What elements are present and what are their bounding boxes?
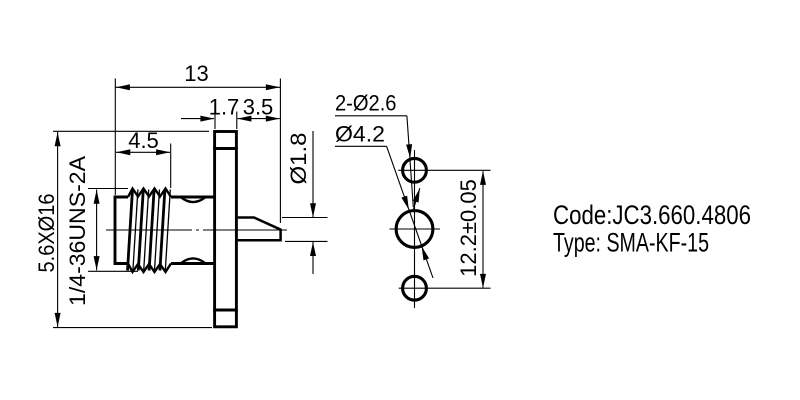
- svg-text:Type: SMA-KF-15: Type: SMA-KF-15: [553, 228, 709, 258]
- svg-text:5.6XØ16: 5.6XØ16: [34, 194, 59, 273]
- svg-text:3.5: 3.5: [243, 95, 274, 120]
- svg-text:Code:JC3.660.4806: Code:JC3.660.4806: [553, 200, 751, 230]
- svg-text:1/4-36UNS-2A: 1/4-36UNS-2A: [65, 156, 90, 306]
- svg-text:Ø4.2: Ø4.2: [335, 122, 385, 147]
- svg-text:12.2±0.05: 12.2±0.05: [456, 179, 481, 277]
- svg-text:Ø1.8: Ø1.8: [286, 133, 311, 185]
- svg-text:13: 13: [184, 61, 208, 86]
- svg-text:1.7: 1.7: [209, 95, 240, 120]
- svg-text:2-Ø2.6: 2-Ø2.6: [335, 91, 397, 116]
